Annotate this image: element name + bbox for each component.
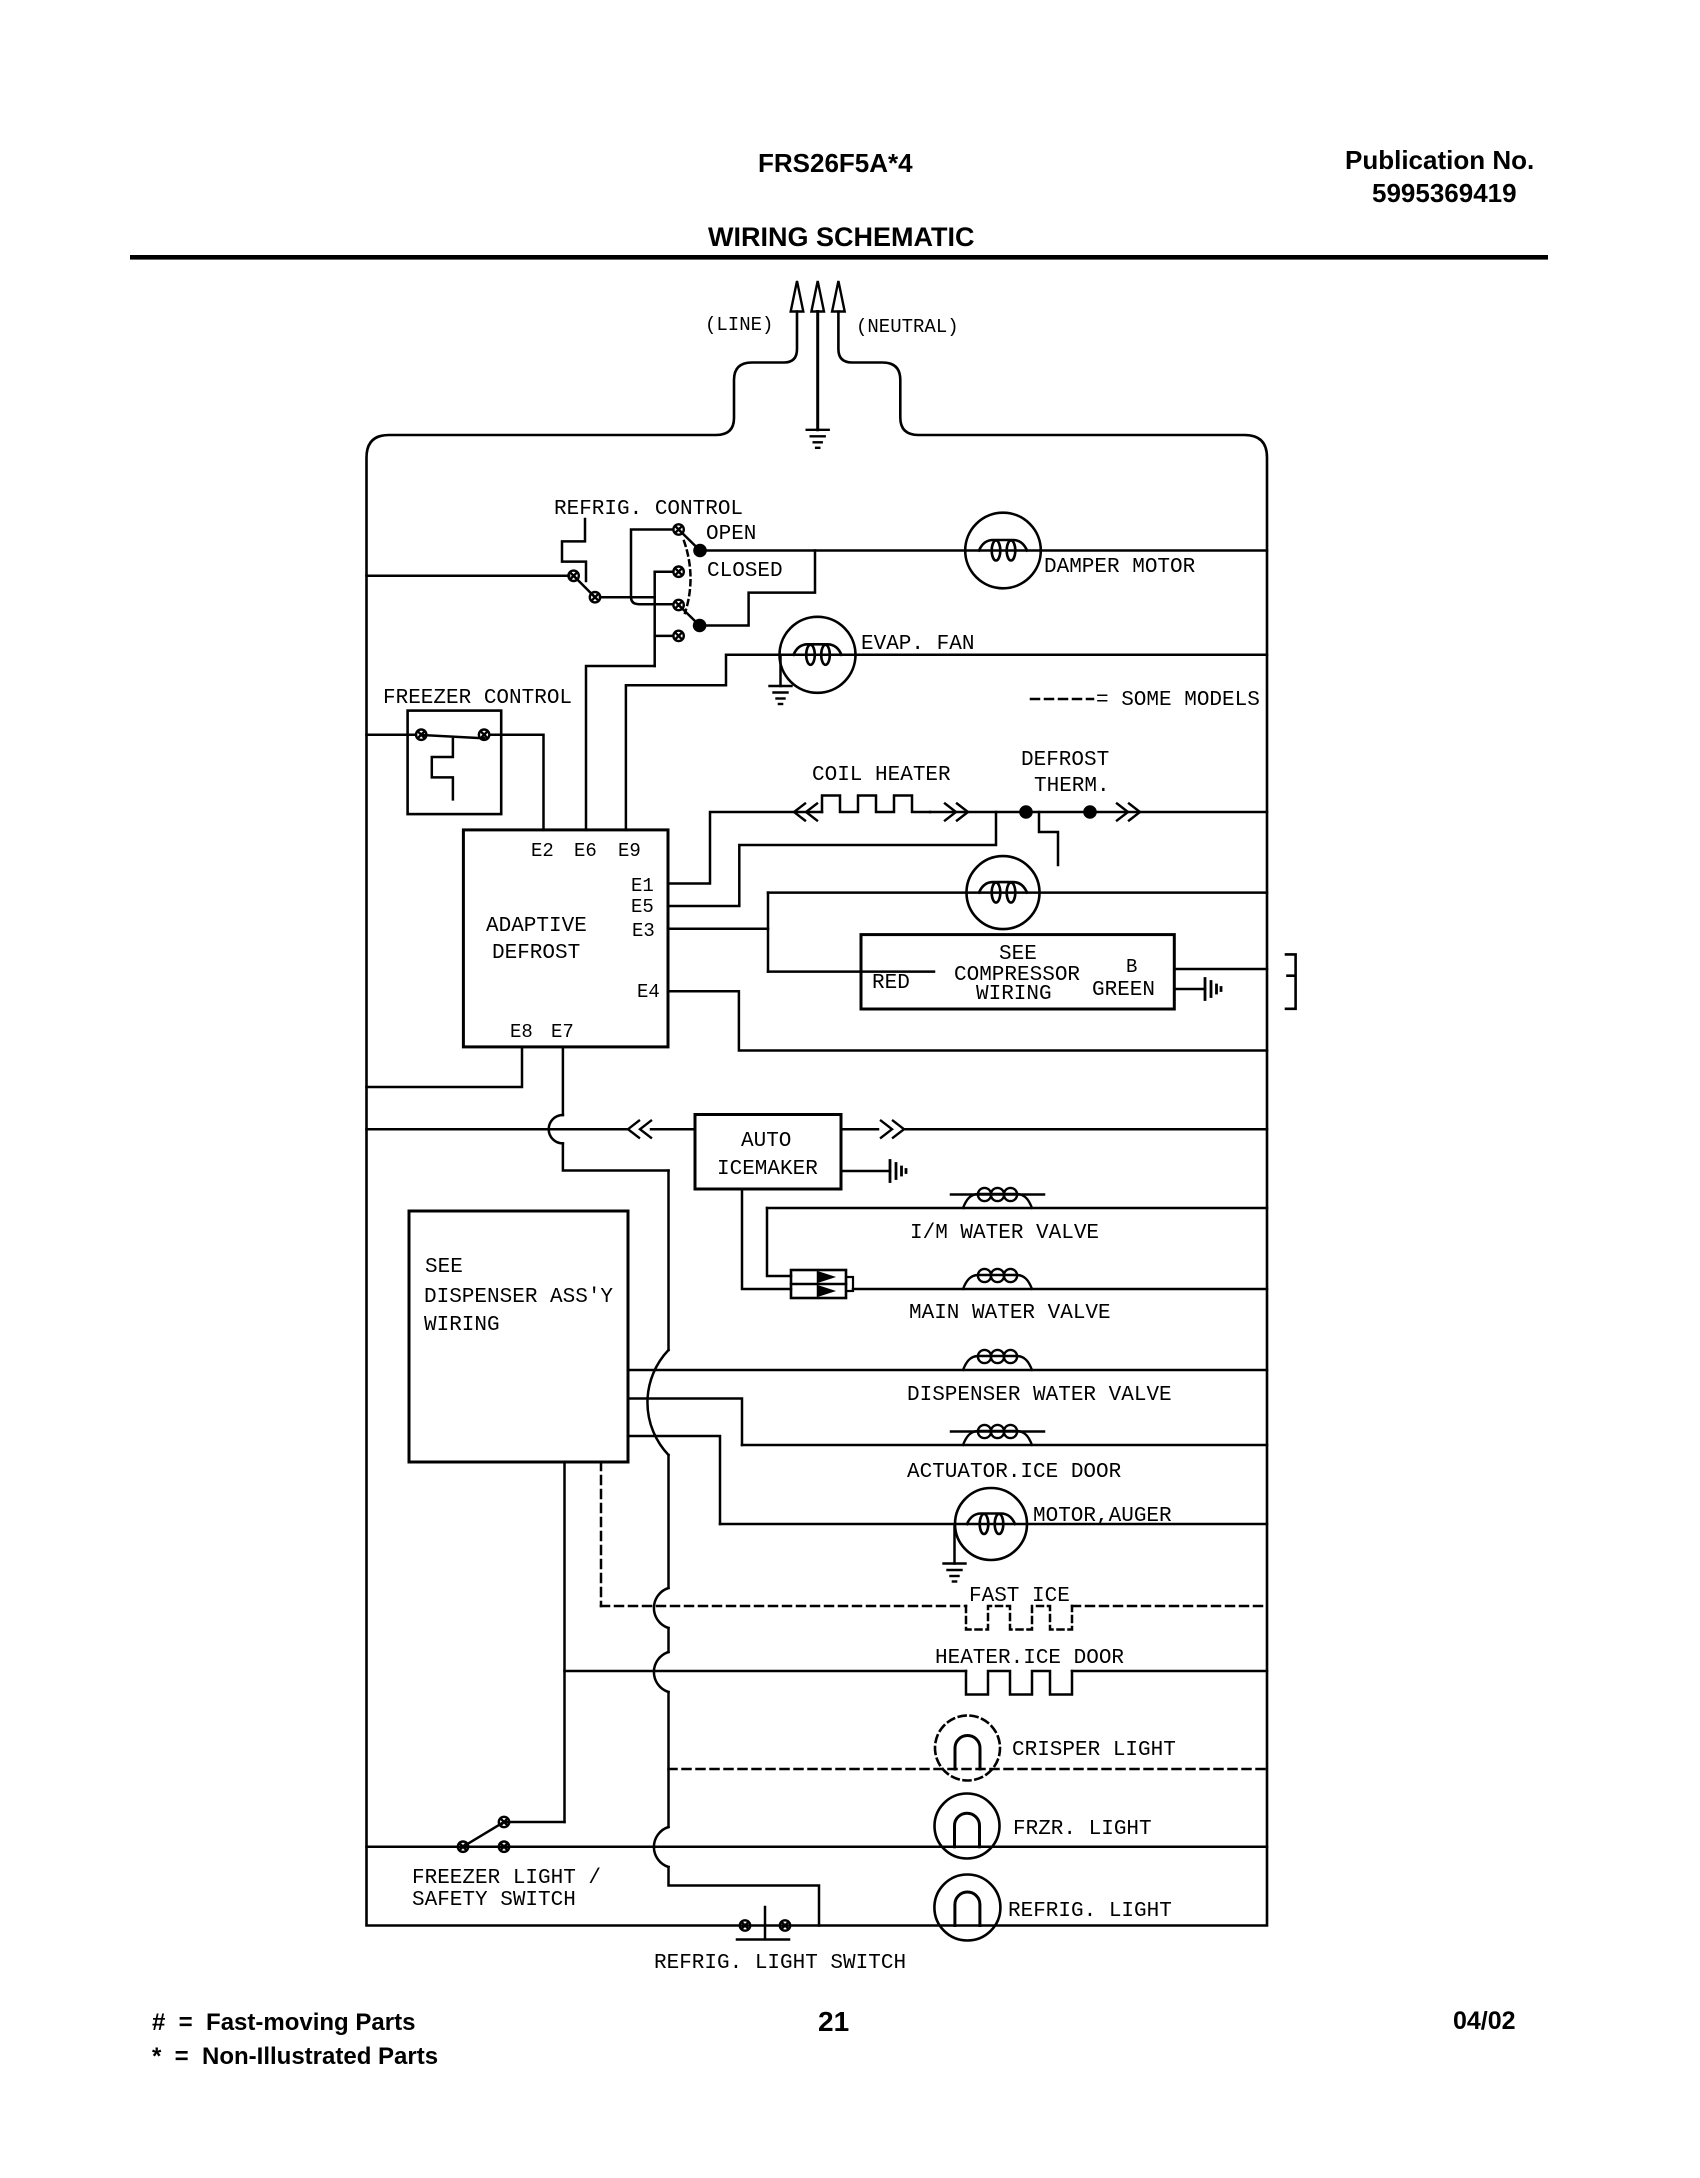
svg-text:SEE: SEE bbox=[999, 943, 1037, 966]
svg-text:E5: E5 bbox=[631, 896, 654, 918]
svg-text:I/M WATER VALVE: I/M WATER VALVE bbox=[910, 1222, 1099, 1245]
svg-text:SEE: SEE bbox=[425, 1256, 463, 1279]
svg-text:WIRING: WIRING bbox=[976, 983, 1052, 1006]
svg-text:DISPENSER ASS'Y: DISPENSER ASS'Y bbox=[424, 1286, 613, 1309]
svg-text:DISPENSER WATER VALVE: DISPENSER WATER VALVE bbox=[907, 1384, 1172, 1407]
svg-text:5995369419: 5995369419 bbox=[1372, 178, 1517, 208]
svg-text:REFRIG. CONTROL: REFRIG. CONTROL bbox=[554, 498, 743, 521]
svg-text:FRS26F5A*4: FRS26F5A*4 bbox=[758, 148, 913, 178]
svg-text:FREEZER CONTROL: FREEZER CONTROL bbox=[383, 687, 572, 710]
svg-text:MAIN WATER VALVE: MAIN WATER VALVE bbox=[909, 1302, 1111, 1325]
svg-text:E7: E7 bbox=[551, 1021, 574, 1043]
svg-text:* = Non-Illustrated Parts: * = Non-Illustrated Parts bbox=[152, 2043, 438, 2070]
svg-text:(LINE): (LINE) bbox=[705, 314, 773, 336]
svg-text:AUTO: AUTO bbox=[741, 1130, 791, 1153]
svg-text:MOTOR,AUGER: MOTOR,AUGER bbox=[1033, 1505, 1172, 1528]
svg-text:E8: E8 bbox=[510, 1021, 533, 1043]
svg-text:= SOME MODELS: = SOME MODELS bbox=[1096, 689, 1260, 712]
svg-text:WIRING: WIRING bbox=[424, 1314, 500, 1337]
svg-text:ADAPTIVE: ADAPTIVE bbox=[486, 915, 587, 938]
svg-text:E2: E2 bbox=[531, 840, 554, 862]
svg-text:04/02: 04/02 bbox=[1453, 2007, 1516, 2035]
svg-text:Publication No.: Publication No. bbox=[1345, 145, 1534, 175]
svg-text:DEFROST: DEFROST bbox=[492, 942, 580, 965]
svg-text:ACTUATOR.ICE DOOR: ACTUATOR.ICE DOOR bbox=[907, 1461, 1122, 1484]
svg-text:B: B bbox=[1126, 956, 1137, 978]
svg-text:FRZR. LIGHT: FRZR. LIGHT bbox=[1013, 1818, 1152, 1841]
svg-text:THERM.: THERM. bbox=[1034, 775, 1110, 798]
svg-text:RED: RED bbox=[872, 972, 910, 995]
svg-text:GREEN: GREEN bbox=[1092, 979, 1155, 1002]
svg-text:21: 21 bbox=[818, 2006, 849, 2037]
svg-text:E1: E1 bbox=[631, 875, 654, 897]
svg-text:REFRIG. LIGHT: REFRIG. LIGHT bbox=[1008, 1900, 1172, 1923]
svg-text:OPEN: OPEN bbox=[706, 523, 756, 546]
svg-text:WIRING SCHEMATIC: WIRING SCHEMATIC bbox=[708, 222, 974, 252]
svg-text:CLOSED: CLOSED bbox=[707, 560, 783, 583]
svg-text:ICEMAKER: ICEMAKER bbox=[717, 1158, 818, 1181]
svg-text:COIL HEATER: COIL HEATER bbox=[812, 764, 951, 787]
svg-text:REFRIG. LIGHT SWITCH: REFRIG. LIGHT SWITCH bbox=[654, 1952, 906, 1975]
svg-text:FAST ICE: FAST ICE bbox=[969, 1585, 1070, 1608]
svg-text:E9: E9 bbox=[618, 840, 641, 862]
svg-text:E3: E3 bbox=[632, 920, 655, 942]
svg-text:(NEUTRAL): (NEUTRAL) bbox=[856, 316, 959, 338]
svg-text:DAMPER MOTOR: DAMPER MOTOR bbox=[1044, 556, 1196, 579]
svg-text:FREEZER LIGHT /: FREEZER LIGHT / bbox=[412, 1867, 601, 1890]
svg-text:CRISPER LIGHT: CRISPER LIGHT bbox=[1012, 1739, 1176, 1762]
svg-text:SAFETY SWITCH: SAFETY SWITCH bbox=[412, 1889, 576, 1912]
svg-text:DEFROST: DEFROST bbox=[1021, 749, 1109, 772]
svg-text:E4: E4 bbox=[637, 981, 660, 1003]
svg-text:EVAP. FAN: EVAP. FAN bbox=[861, 633, 974, 656]
svg-text:HEATER.ICE DOOR: HEATER.ICE DOOR bbox=[935, 1647, 1124, 1670]
svg-text:# = Fast-moving Parts: # = Fast-moving Parts bbox=[152, 2009, 415, 2036]
svg-text:E6: E6 bbox=[574, 840, 597, 862]
